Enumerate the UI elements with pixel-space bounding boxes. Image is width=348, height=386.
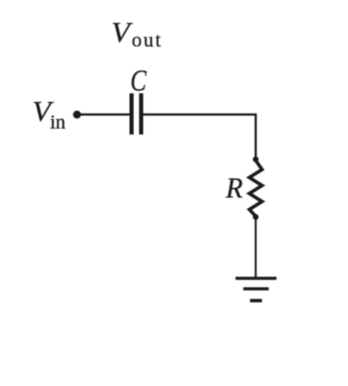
svg-text:in: in: [50, 112, 66, 134]
svg-text:C: C: [130, 64, 147, 99]
svg-text:out: out: [132, 30, 163, 52]
svg-text:R: R: [225, 174, 243, 205]
